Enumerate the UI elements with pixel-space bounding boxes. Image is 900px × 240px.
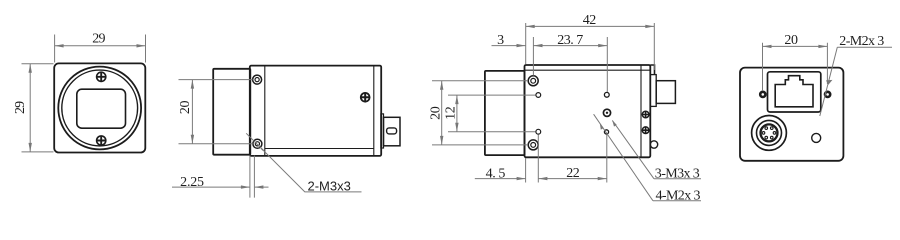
svg-text:4. 5: 4. 5 <box>486 166 506 181</box>
svg-text:3-M3x 3: 3-M3x 3 <box>655 167 700 182</box>
svg-text:29: 29 <box>13 101 28 114</box>
svg-text:29: 29 <box>92 32 105 47</box>
svg-text:12: 12 <box>443 106 458 120</box>
svg-text:42: 42 <box>583 13 597 28</box>
svg-text:2-M2x 3: 2-M2x 3 <box>839 34 884 49</box>
svg-text:20: 20 <box>178 101 193 115</box>
svg-text:20: 20 <box>784 33 798 48</box>
svg-text:2-M3x3: 2-M3x3 <box>308 179 351 194</box>
svg-text:2.25: 2.25 <box>180 175 204 190</box>
svg-text:20: 20 <box>429 106 444 120</box>
svg-text:4-M2x 3: 4-M2x 3 <box>656 189 701 204</box>
svg-text:22: 22 <box>566 166 580 181</box>
svg-text:3: 3 <box>497 33 504 48</box>
svg-text:23. 7: 23. 7 <box>557 33 583 48</box>
